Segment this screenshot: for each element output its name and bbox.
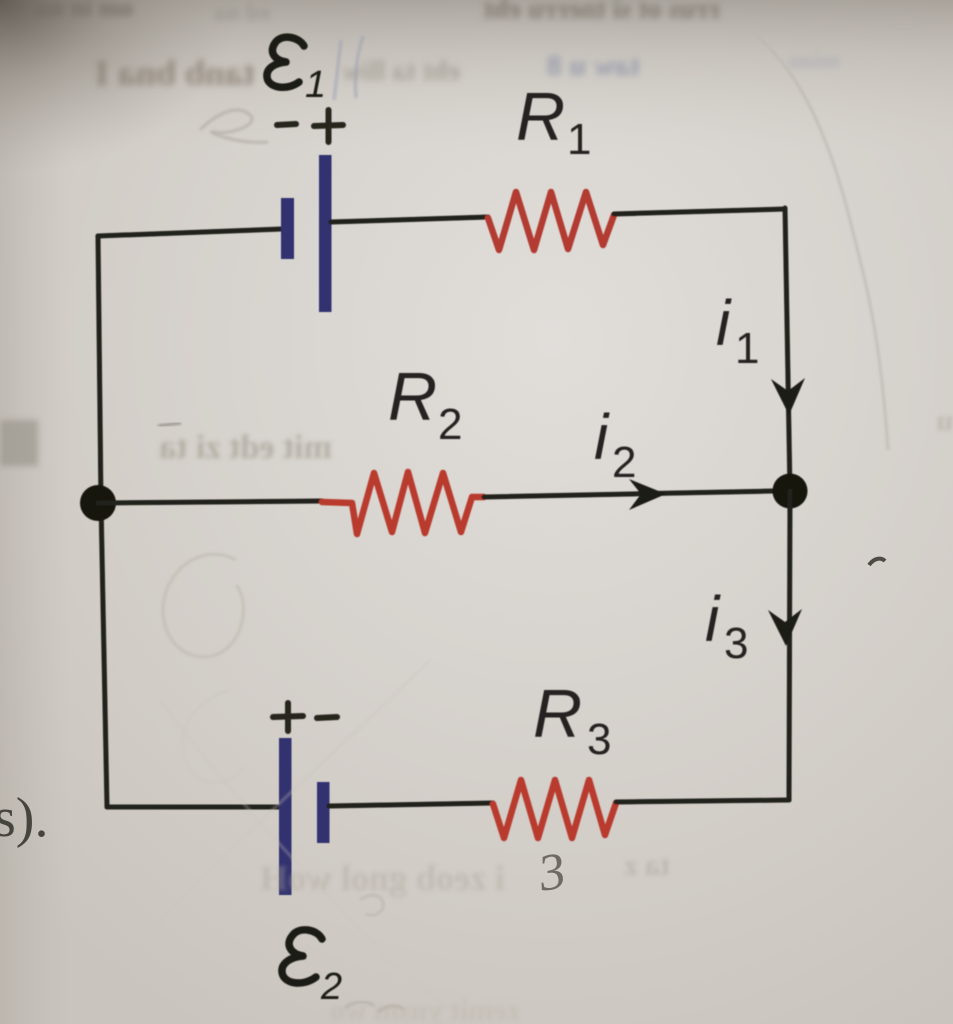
svg-text:ta z: ta z xyxy=(624,849,670,882)
label E2 script epsilon xyxy=(282,930,322,983)
node: left junction xyxy=(80,485,116,521)
resistor R3 zigzag xyxy=(493,780,616,838)
svg-text:tanb bna I: tanb bna I xyxy=(95,53,255,93)
small gray dash left-middle xyxy=(158,423,181,426)
wire: left vertical lower (left node to bottom-left corner) xyxy=(101,503,107,807)
label E1 plus sign xyxy=(314,110,343,142)
wire: battery E2 to resistor R3 xyxy=(329,803,493,806)
label E1 script epsilon xyxy=(267,37,304,87)
svg-text:i: i xyxy=(716,287,732,359)
svg-text:R: R xyxy=(388,359,437,435)
svg-text:miau: miau xyxy=(788,48,840,74)
svg-text:R: R xyxy=(516,79,565,155)
svg-text:2: 2 xyxy=(438,400,462,449)
wire: top-left horizontal (left corner to battery E1) xyxy=(98,229,282,236)
resistor R2 zigzag with red leads xyxy=(322,472,484,534)
bleed-through ghost text top rows xyxy=(35,0,840,93)
pencil curves bottom-left xyxy=(120,660,430,985)
svg-text:rrus ot si tnerru eht: rrus ot si tnerru eht xyxy=(483,0,720,25)
node: right junction xyxy=(773,474,808,509)
battery E1 negative plate (short bar) xyxy=(281,198,294,259)
svg-text:mit edt zi ta: mit edt zi ta xyxy=(159,429,332,466)
battery E2 positive plate (long bar) xyxy=(279,738,292,895)
pencil squiggle top-center xyxy=(200,110,268,142)
svg-text:s).: s). xyxy=(0,787,48,849)
svg-text:u: u xyxy=(936,404,953,437)
svg-text:taw u 8: taw u 8 xyxy=(547,49,640,82)
svg-text:1: 1 xyxy=(735,324,759,373)
current arrow i1 (down) xyxy=(771,378,805,415)
small dark smudge right-middle xyxy=(869,559,885,565)
label E1 minus sign xyxy=(277,124,296,125)
wire: left node to resistor R2 xyxy=(98,501,322,503)
current arrow i2 (right) xyxy=(629,479,666,510)
ghost text band bottom (mirrored bleed-through) xyxy=(260,849,670,1024)
wire: left vertical (top corner to left node) xyxy=(98,236,101,503)
svg-text:1: 1 xyxy=(567,115,591,164)
wire: resistor R1 to top-right corner xyxy=(614,209,785,214)
svg-text:ed na: ed na xyxy=(215,0,270,26)
wire: battery E1 to resistor R1 xyxy=(331,217,488,222)
bleed-through blue pen mark right of E1 xyxy=(334,36,363,100)
svg-text:3: 3 xyxy=(724,619,748,668)
ghost text band middle (mirrored bleed-through) xyxy=(0,404,953,466)
current arrow i3 (down) xyxy=(768,609,802,646)
circuit drawing xyxy=(80,37,808,1008)
battery E2 negative plate (short bar) xyxy=(317,782,330,843)
wire: resistor R2 to right node xyxy=(484,491,774,497)
svg-text:un ni mo: un ni mo xyxy=(35,0,133,22)
wire: right vertical lower (right node to bottom-right corner) xyxy=(789,491,790,800)
pencil curve right side xyxy=(755,35,888,450)
wire: right vertical upper (top-right corner to right node) xyxy=(785,208,790,491)
svg-text:i: i xyxy=(705,583,721,655)
svg-text:R: R xyxy=(533,676,582,752)
wire: resistor R3 to bottom-right corner xyxy=(616,800,789,802)
svg-text:zemit ynsm wo: zemit ynsm wo xyxy=(330,994,520,1024)
label E2 minus sign xyxy=(317,717,337,718)
pencil loop middle-left xyxy=(163,554,243,657)
resistor R1 zigzag xyxy=(488,192,614,250)
svg-text:3: 3 xyxy=(587,715,611,764)
battery E1 positive plate (long bar) xyxy=(319,155,332,312)
svg-text:i zeob gnol woH: i zeob gnol woH xyxy=(260,858,505,898)
svg-text:eht ta lliw: eht ta lliw xyxy=(341,56,460,87)
pencil marks right of E2 xyxy=(360,895,384,915)
svg-text:2: 2 xyxy=(612,438,636,487)
svg-text:i: i xyxy=(594,401,610,473)
label E2 plus sign xyxy=(273,703,303,731)
svg-text:1: 1 xyxy=(305,64,326,106)
wire: bottom-left corner to battery E2 xyxy=(107,805,279,810)
